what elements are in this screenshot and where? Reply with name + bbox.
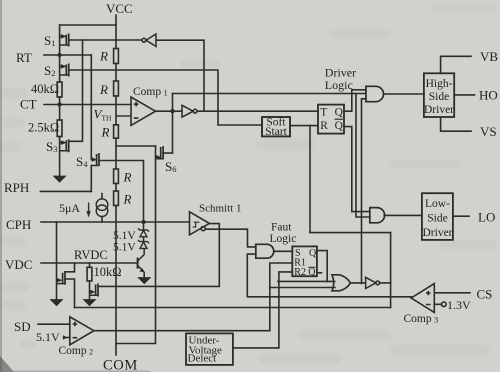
svg-text:R: R: [123, 192, 132, 207]
wire comp3 output rail to fault AND bottom input: [247, 254, 411, 297]
box fault SR flip-flop: [292, 246, 317, 276]
current source 5uA: [87, 199, 108, 217]
box T-R flip-flop: [318, 105, 344, 134]
wire S6 source column down to COM step: [116, 146, 156, 344]
wire fault FF Q down to OR input rail: [317, 251, 327, 282]
svg-text:VB: VB: [480, 49, 498, 64]
transistor S3: [60, 139, 70, 152]
scan edge artifacts: [0, 0, 2, 372]
wire schmitt bubble output over and down to fault AND top input: [205, 229, 256, 247]
svg-text:Schmitt 1: Schmitt 1: [199, 202, 241, 214]
wire rvdc mosfet drain rail to schmitt apex corner: [98, 224, 219, 287]
wire LO: [453, 215, 469, 217]
box Under-Voltage Detect: [186, 333, 233, 365]
inverter top feedback (points left): [142, 34, 156, 46]
wire S1 top to VCC: [60, 24, 116, 26]
wire zener column leads: [143, 222, 145, 242]
inverter after OR: [366, 277, 380, 288]
transistor S2: [60, 64, 70, 77]
svg-text:Side: Side: [427, 213, 447, 225]
svg-text:R: R: [123, 170, 132, 185]
wire S1 drain to inverter output: [69, 39, 142, 41]
wire UV detect to R2: [233, 272, 292, 348]
svg-text:R: R: [101, 124, 110, 139]
node comp1 output junction: [170, 109, 174, 113]
text Low-Side Driver: [422, 198, 452, 239]
wire soft start output to FF R input: [290, 125, 318, 127]
svg-text:R: R: [99, 82, 108, 97]
wire current source stubs: [101, 194, 103, 223]
box High-Side Driver: [424, 73, 454, 117]
wire S1 drain branch down to S3 drain: [69, 40, 83, 141]
node RT junction: [57, 53, 61, 57]
svg-text:2.5kΩ: 2.5kΩ: [28, 121, 59, 135]
wire LS AND output: [384, 214, 422, 216]
wire comp3 minus stub: [434, 303, 441, 305]
op-amp Comp1: [116, 97, 156, 125]
wire VDC line: [41, 262, 138, 264]
ground below S3: [54, 176, 66, 182]
wire fault right vertical: [390, 233, 392, 308]
svg-text:CPH: CPH: [6, 217, 31, 232]
wire comp1 output to inverter2: [156, 110, 183, 112]
transistor shutdown mosfet at CPH: [57, 272, 66, 285]
wire S4 drain over to CPH junction: [99, 161, 144, 223]
wire osc branch to low-side AND: [356, 94, 370, 218]
svg-text:T: T: [320, 106, 327, 118]
svg-text:R: R: [320, 120, 328, 132]
node CPH zener junction: [141, 220, 145, 224]
wire soft start R branch down to fault rail: [309, 126, 311, 233]
svg-text:COM: COM: [103, 358, 138, 372]
wire OR input 2 from R1 column: [270, 287, 335, 289]
svg-text:5.1V: 5.1V: [113, 230, 136, 242]
wire OR input 1 from R2 column: [278, 280, 335, 282]
5.1V tick at comp2: [63, 336, 67, 340]
AND gate low-side: [370, 208, 385, 223]
wire inverter1 input down to oscillator output line: [156, 40, 204, 111]
resistor 10k: [87, 267, 92, 281]
zener diode 5.1V upper: [138, 228, 149, 236]
svg-text:RPH: RPH: [4, 180, 29, 195]
wire cpmosfet source lead down to fault bottom rail: [65, 279, 75, 308]
wire VCC vertical / R-chain / COM column: [115, 15, 117, 355]
svg-text:Delect: Delect: [188, 353, 217, 365]
transistor S4: [91, 153, 100, 166]
node CT junction: [57, 102, 61, 106]
wire VS: [441, 117, 471, 131]
wire HS AND output: [384, 93, 424, 95]
wire osc rail to driver logic: [173, 93, 366, 95]
wire FF Qbar to LS AND: [344, 127, 370, 212]
svg-text:Faut: Faut: [271, 221, 292, 233]
svg-text:5.1V: 5.1V: [113, 242, 136, 254]
wire S6 drain up to comp1 node: [163, 152, 173, 154]
svg-text:5μA: 5μA: [59, 201, 80, 215]
svg-text:CS: CS: [477, 287, 493, 302]
box Low-Side Driver: [422, 193, 453, 240]
ground below BJT clamp: [138, 278, 150, 284]
wire SD to comp2: [38, 323, 70, 325]
inverter after comp1: [182, 105, 197, 117]
svg-text:Q: Q: [309, 248, 317, 259]
svg-text:5.1V: 5.1V: [36, 330, 60, 344]
wire VB: [441, 56, 471, 73]
wire CPH branch to shutdown mosfet and ground: [56, 222, 58, 300]
transistor RVDC mosfet: [90, 284, 100, 297]
svg-text:Side: Side: [429, 91, 449, 103]
wire OR output to inverter3: [350, 282, 365, 284]
op-amp Comp3 (points left): [411, 284, 446, 313]
svg-text:CT: CT: [20, 97, 37, 112]
resistor 2.5k: [57, 120, 62, 137]
svg-text:SD: SD: [14, 319, 31, 334]
svg-text:Q: Q: [335, 106, 344, 118]
wire RT to S4 gate column: [90, 55, 92, 191]
ground below RVDC mosfet: [83, 300, 95, 306]
wire comp2 output to R1: [94, 263, 292, 331]
wire 10k top lead: [89, 263, 91, 267]
transistor BJT clamp: [138, 248, 145, 277]
transistor S1: [60, 34, 70, 47]
wire S2 drain to soft-start path: [69, 70, 262, 125]
svg-text:Logic: Logic: [325, 78, 353, 92]
schmitt trigger: [190, 212, 210, 235]
transistor S6: [156, 146, 165, 160]
wire RPH line: [40, 190, 91, 192]
text Under-Voltage Detect: [188, 334, 223, 364]
svg-text:1.3V: 1.3V: [447, 298, 471, 312]
svg-text:R: R: [99, 49, 108, 64]
wire fault AND output to S input: [275, 250, 293, 252]
resistor R1: [114, 49, 119, 64]
resistor R5: [114, 191, 119, 206]
svg-text:Q: Q: [335, 120, 344, 132]
wire HO: [454, 94, 474, 96]
wire RT line: [44, 54, 91, 56]
svg-text:Driver: Driver: [422, 227, 452, 239]
OR gate: [332, 275, 350, 291]
resistor R2: [114, 81, 119, 96]
svg-text:High-: High-: [426, 78, 453, 90]
box Soft Start: [262, 117, 290, 136]
wire 5.1V tick to comp2 minus: [64, 337, 70, 339]
svg-text:HO: HO: [479, 88, 498, 103]
op-amp Comp2: [70, 317, 94, 345]
svg-text:RT: RT: [16, 50, 32, 65]
resistor R4: [114, 169, 119, 184]
wire cpmosfet drain lead to VDC column: [65, 263, 75, 272]
wire fault top rail from soft-start branch: [310, 232, 391, 234]
wire fault feed up to HS AND input: [362, 99, 366, 284]
ground below shutdown mosfet: [50, 300, 62, 306]
resistor R3: [114, 125, 119, 138]
zener diode 5.1V lower: [138, 240, 149, 248]
wire fault FF Qbar stub: [317, 272, 322, 274]
svg-text:10kΩ: 10kΩ: [94, 265, 122, 279]
wire S1 left column RT to resistors chain: [59, 25, 61, 176]
AND gate fault logic: [256, 244, 274, 258]
wire inverter3 output to fault vertical: [380, 282, 391, 284]
wire CT line to Comp1: [44, 104, 131, 106]
svg-text:Q: Q: [308, 267, 316, 278]
resistor 40k: [57, 82, 62, 97]
svg-text:VDC: VDC: [5, 257, 32, 272]
wire fault bottom rail: [75, 307, 391, 309]
wire FF Q to HS AND: [344, 90, 366, 111]
svg-text:RVDC: RVDC: [74, 248, 108, 262]
wire S6 gate from chain: [116, 145, 156, 147]
wire 10k bottom to gate and ground: [89, 281, 91, 300]
wire CS: [434, 292, 470, 294]
wire CPH line: [41, 221, 189, 223]
svg-text:Low-: Low-: [425, 198, 450, 210]
text Soft Start: [265, 116, 288, 137]
svg-text:VS: VS: [480, 124, 497, 139]
wire inverter2 output to FF T input: [197, 110, 318, 112]
svg-text:VCC: VCC: [106, 1, 133, 16]
wire comp1 node up to osc rail and down to S6 drain: [172, 94, 174, 154]
svg-text:Start: Start: [265, 126, 288, 138]
AND gate high-side: [366, 86, 384, 101]
svg-text:LO: LO: [478, 210, 495, 225]
text High-Side Driver: [424, 78, 454, 116]
svg-text:Driver: Driver: [424, 104, 454, 116]
svg-text:Logic: Logic: [270, 233, 297, 245]
text T R Q Qbar of T-R FF: [320, 106, 343, 132]
svg-text:40kΩ: 40kΩ: [31, 82, 59, 96]
svg-text:R2: R2: [294, 267, 306, 278]
text S Q R1 R2 Qbar of fault FF: [294, 248, 317, 278]
